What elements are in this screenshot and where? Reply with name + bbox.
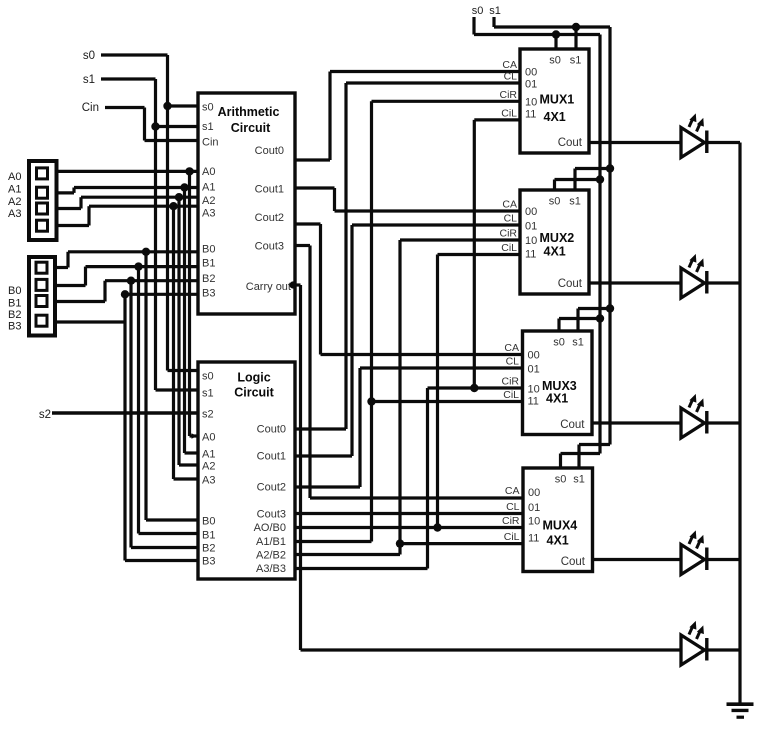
svg-text:11: 11 <box>528 396 539 408</box>
svg-text:Cout: Cout <box>560 419 585 431</box>
svg-text:CiL: CiL <box>504 531 520 543</box>
svg-text:CiR: CiR <box>500 228 518 240</box>
wire net A1B1 (Logic A1/B1 to MUX1 CiR and MUX3 CiL) <box>295 101 523 541</box>
svg-text:s1: s1 <box>83 74 95 86</box>
svg-text:A0: A0 <box>8 171 21 183</box>
svg-text:A1/B1: A1/B1 <box>256 536 286 548</box>
svg-text:Cout: Cout <box>558 278 583 290</box>
wire net A1 <box>57 183 199 453</box>
svg-text:CL: CL <box>504 71 518 83</box>
svg-text:s1: s1 <box>569 196 581 208</box>
wire net s2 <box>52 411 198 414</box>
wire net s1-left <box>101 79 198 390</box>
svg-text:4X1: 4X1 <box>547 534 569 548</box>
svg-text:B0: B0 <box>202 516 215 528</box>
wire net A2 <box>57 193 199 465</box>
svg-text:B2: B2 <box>202 543 215 555</box>
svg-text:Circuit: Circuit <box>231 121 271 135</box>
svg-text:s0: s0 <box>202 371 214 383</box>
svg-text:Cout1: Cout1 <box>257 451 286 463</box>
svg-text:Cout3: Cout3 <box>255 241 284 253</box>
svg-text:10: 10 <box>525 235 537 247</box>
svg-text:Cout3: Cout3 <box>257 509 286 521</box>
svg-text:B3: B3 <box>8 321 21 333</box>
LED D3 <box>591 394 740 438</box>
wire net s1-select rail <box>494 17 614 468</box>
svg-text:Cin: Cin <box>202 137 219 149</box>
svg-text:CA: CA <box>502 59 517 71</box>
svg-text:CA: CA <box>502 199 517 211</box>
wire net A3B3 (Logic A3/B3 to MUX3 CiR and MUX1 CiL) <box>295 120 523 569</box>
svg-text:A2: A2 <box>202 461 215 473</box>
wire cathode rail to ground <box>738 143 741 704</box>
svg-text:MUX4: MUX4 <box>543 519 578 533</box>
wire net CoutL3 (Logic Cout3 to MUX4 CL) <box>295 512 523 515</box>
svg-text:00: 00 <box>528 487 540 499</box>
svg-text:s0: s0 <box>549 196 561 208</box>
svg-text:B1: B1 <box>202 530 215 542</box>
svg-text:01: 01 <box>528 364 540 376</box>
connector JA (A0-A3 header) <box>29 161 57 240</box>
svg-text:Cout: Cout <box>561 556 586 568</box>
wire net CoutA1 (Arith Cout1 to MUX2 CA) <box>295 188 520 211</box>
svg-text:B1: B1 <box>8 297 21 309</box>
svg-text:B1: B1 <box>202 258 215 270</box>
svg-text:10: 10 <box>525 96 537 108</box>
wire net A2B2 (Logic A2/B2 to MUX2 CiR and MUX4 CiL) <box>295 240 523 555</box>
wire net CoutA2 (Arith Cout2 to MUX3 CA) <box>295 224 523 355</box>
wire net B1 <box>55 262 198 533</box>
svg-text:MUX2: MUX2 <box>540 231 575 245</box>
wire net A0 <box>57 167 199 439</box>
svg-text:CiR: CiR <box>502 515 520 527</box>
svg-text:Cin: Cin <box>82 102 99 114</box>
svg-text:A0: A0 <box>202 432 215 444</box>
svg-text:B0: B0 <box>8 285 21 297</box>
LED D1 <box>589 113 740 157</box>
svg-text:A3: A3 <box>202 475 215 487</box>
svg-text:Arithmetic: Arithmetic <box>218 105 280 119</box>
svg-text:MUX1: MUX1 <box>540 92 575 106</box>
svg-text:01: 01 <box>528 502 540 514</box>
svg-text:Cout1: Cout1 <box>255 184 284 196</box>
wire net A0B0 (Logic AO/B0 to MUX4 CiR and MUX2 CiL) <box>295 255 523 532</box>
connector JB (B0-B3 header) <box>29 257 55 336</box>
svg-text:CA: CA <box>505 485 520 497</box>
svg-text:CL: CL <box>506 356 520 368</box>
ground <box>727 704 754 717</box>
svg-text:CL: CL <box>506 501 520 513</box>
wire net CoutA0 (Arith Cout0 to MUX1 CA) <box>295 72 520 161</box>
svg-text:Cout2: Cout2 <box>257 482 286 494</box>
svg-text:A3: A3 <box>8 208 21 220</box>
svg-text:A1: A1 <box>202 182 215 194</box>
svg-text:4X1: 4X1 <box>546 392 568 406</box>
svg-text:s1: s1 <box>202 388 214 400</box>
svg-text:11: 11 <box>525 249 536 261</box>
svg-text:A0: A0 <box>202 166 215 178</box>
svg-text:Cout2: Cout2 <box>255 212 284 224</box>
svg-text:CiR: CiR <box>500 89 518 101</box>
svg-text:s0: s0 <box>555 474 567 486</box>
svg-text:CiL: CiL <box>501 107 517 119</box>
svg-text:B3: B3 <box>202 288 215 300</box>
svg-text:A2: A2 <box>8 196 21 208</box>
svg-text:11: 11 <box>525 109 536 121</box>
svg-text:A1: A1 <box>8 184 21 196</box>
mux U4 MUX2 4X1 <box>520 190 589 294</box>
wire net A3 <box>57 202 199 479</box>
svg-text:s1: s1 <box>573 474 585 486</box>
LED D5 <box>681 621 740 665</box>
svg-text:A3/B3: A3/B3 <box>256 563 286 575</box>
svg-text:01: 01 <box>525 221 537 233</box>
block U1 Arithmetic Circuit <box>198 93 295 314</box>
svg-text:00: 00 <box>528 350 540 362</box>
svg-text:AO/B0: AO/B0 <box>254 522 286 534</box>
svg-text:10: 10 <box>528 384 540 396</box>
wire net B2 <box>55 277 198 548</box>
wire net CoutA3 (Arith Cout3 to MUX4 CA) <box>295 246 523 499</box>
svg-text:Cout0: Cout0 <box>255 145 284 157</box>
svg-text:4X1: 4X1 <box>544 245 566 259</box>
svg-text:B3: B3 <box>202 556 215 568</box>
wire net B3 <box>55 290 198 560</box>
svg-text:Logic: Logic <box>237 371 270 385</box>
svg-text:B2: B2 <box>202 273 215 285</box>
svg-text:s1: s1 <box>202 121 214 133</box>
wire net Cin <box>105 108 198 141</box>
svg-text:Cout: Cout <box>558 137 583 149</box>
svg-text:CiL: CiL <box>501 242 517 254</box>
svg-text:A2: A2 <box>202 195 215 207</box>
svg-text:CL: CL <box>504 213 518 225</box>
svg-text:s2: s2 <box>202 409 214 421</box>
svg-text:4X1: 4X1 <box>544 110 566 124</box>
svg-text:s0: s0 <box>553 337 565 349</box>
svg-text:01: 01 <box>525 79 537 91</box>
wire net s0-select rail <box>474 17 604 468</box>
wire net CoutL2 (Logic Cout2 to MUX3 CL) <box>295 368 523 487</box>
svg-text:A1: A1 <box>202 449 215 461</box>
svg-text:B2: B2 <box>8 309 21 321</box>
svg-text:s0: s0 <box>472 5 484 17</box>
wire net CarryOut (to LED D5) <box>289 281 681 650</box>
wire net s0-left <box>101 55 198 371</box>
wire net B0 <box>55 248 198 520</box>
svg-text:11: 11 <box>528 533 539 545</box>
LED D4 <box>592 530 740 574</box>
svg-text:00: 00 <box>525 67 537 79</box>
svg-text:Circuit: Circuit <box>234 386 274 400</box>
svg-text:CA: CA <box>504 342 519 354</box>
svg-text:Carry out: Carry out <box>246 281 291 293</box>
LED D2 <box>589 254 740 298</box>
block U2 Logic Circuit <box>198 362 295 579</box>
svg-text:A2/B2: A2/B2 <box>256 550 286 562</box>
mux U5 MUX3 4X1 <box>523 331 593 435</box>
mux U6 MUX4 4X1 <box>523 468 593 572</box>
svg-text:B0: B0 <box>202 244 215 256</box>
svg-text:CiR: CiR <box>502 376 520 388</box>
svg-text:00: 00 <box>525 206 537 218</box>
svg-text:s0: s0 <box>202 102 214 114</box>
svg-text:CiL: CiL <box>503 389 519 401</box>
svg-text:Cout0: Cout0 <box>257 424 286 436</box>
wire net CoutL1 (Logic Cout1 to MUX2 CL) <box>295 225 520 456</box>
svg-text:s1: s1 <box>572 337 584 349</box>
svg-text:A3: A3 <box>202 208 215 220</box>
svg-text:s1: s1 <box>489 5 501 17</box>
mux U3 MUX1 4X1 <box>520 49 589 153</box>
svg-text:s0: s0 <box>83 50 95 62</box>
wire net CoutL0 (Logic Cout0 to MUX1 CL) <box>295 83 520 429</box>
svg-text:10: 10 <box>528 516 540 528</box>
svg-text:s2: s2 <box>39 409 51 421</box>
svg-text:s0: s0 <box>549 55 561 67</box>
svg-text:s1: s1 <box>570 55 582 67</box>
